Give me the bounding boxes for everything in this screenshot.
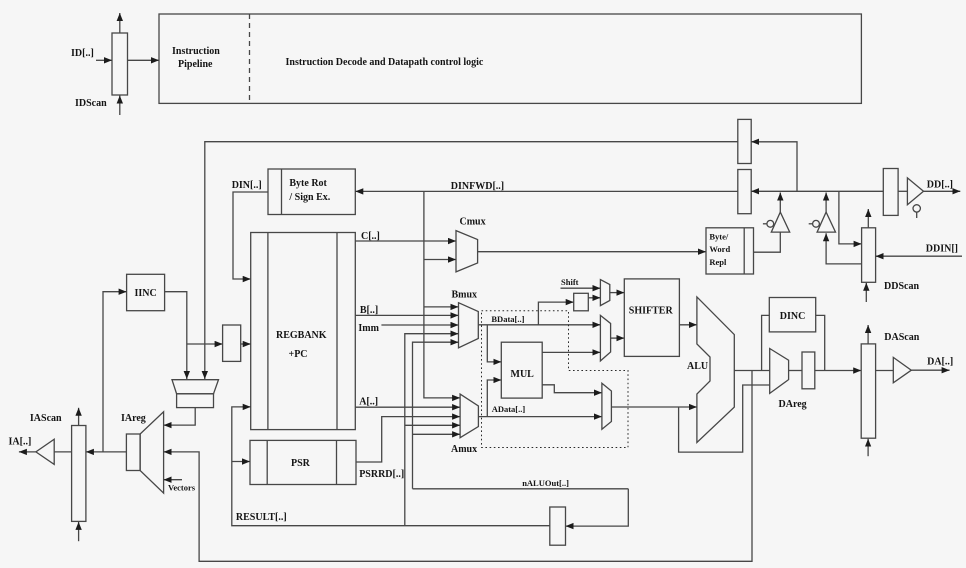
svg-text:DDScan: DDScan xyxy=(884,281,919,292)
svg-text:A[..]: A[..] xyxy=(359,397,378,408)
wire AData tap to MUL input 2 xyxy=(487,380,501,417)
svg-text:+PC: +PC xyxy=(289,349,308,360)
svg-text:Byte/: Byte/ xyxy=(709,232,729,242)
register DIN latch lower xyxy=(738,170,751,214)
svg-text:SHIFTER: SHIFTER xyxy=(629,306,674,317)
svg-text:Pipeline: Pipeline xyxy=(178,59,213,70)
wire riser branch to Bmux input 1 xyxy=(424,306,459,308)
register DIN forward latch upper xyxy=(738,119,751,163)
svg-text:Vectors: Vectors xyxy=(168,483,196,493)
wire Cmux output to Byte/Word Repl xyxy=(478,251,706,253)
wire tristate 2 output to bus xyxy=(825,193,827,213)
svg-text:Imm: Imm xyxy=(358,323,379,334)
svg-text:DINFWD[..]: DINFWD[..] xyxy=(451,181,504,192)
wire DD[..] output arrow xyxy=(924,190,961,192)
svg-text:nALUOut[..]: nALUOut[..] xyxy=(522,478,569,488)
svg-text:RESULT[..]: RESULT[..] xyxy=(236,512,287,523)
svg-text:BData[..]: BData[..] xyxy=(491,314,524,324)
mux Cmux xyxy=(456,231,478,272)
wire riser branch to Cmux input 2 xyxy=(424,259,456,261)
wire operand mux to ALU input 2 xyxy=(611,406,697,408)
register DD latch xyxy=(883,169,898,216)
wire DD bus tap into upper latch xyxy=(751,142,797,192)
wire nALUOut into data out register xyxy=(566,489,629,526)
transistor tristate driver 1 from Byte/Word Repl xyxy=(763,223,767,225)
wire latch to REGBANK xyxy=(241,343,251,345)
svg-text:DD[..]: DD[..] xyxy=(927,180,953,191)
mux shifter operand mux xyxy=(600,315,610,361)
svg-text:PSRRD[..]: PSRRD[..] xyxy=(359,469,404,480)
wire RESULT branch into PSR xyxy=(232,461,250,463)
svg-text:DINC: DINC xyxy=(780,311,806,322)
svg-text:Word: Word xyxy=(709,244,730,254)
wire DDScan to tristate 2 xyxy=(826,233,862,264)
wire DINC right bracket xyxy=(816,315,825,370)
wire RESULT bus xyxy=(232,407,550,526)
wire SHIFTER output to ALU input 1 xyxy=(679,324,697,326)
svg-text:Byte Rot: Byte Rot xyxy=(289,178,327,189)
wire RESULT branch to Amux input 4 xyxy=(405,424,460,426)
transistor tristate driver 2 from DDScan xyxy=(809,223,813,225)
svg-text:PSR: PSR xyxy=(291,458,311,469)
mux Bmux xyxy=(459,303,479,348)
mux ALU operand mux xyxy=(602,383,612,429)
svg-text:ALU: ALU xyxy=(687,361,708,372)
svg-text:IDScan: IDScan xyxy=(75,98,107,109)
wire DD latch to DD buffer xyxy=(898,190,907,192)
svg-text:IA[..]: IA[..] xyxy=(9,437,32,448)
wire B bus to Bmux xyxy=(355,314,458,316)
block MUL multiplier xyxy=(501,342,542,398)
svg-text:MUL: MUL xyxy=(511,369,535,380)
mux DAreg xyxy=(770,349,789,394)
wire MUL lower output to ALU operand mux xyxy=(542,385,602,393)
block IINC incrementer xyxy=(127,274,165,310)
wire Shift input to shift mux xyxy=(561,287,601,289)
svg-text:B[..]: B[..] xyxy=(360,305,378,316)
wire PC forward long wire to PC mux xyxy=(205,142,738,379)
svg-text:Cmux: Cmux xyxy=(460,217,486,228)
register shift amount box xyxy=(574,293,589,311)
wire AData bus Amux to ALU operand mux xyxy=(478,416,602,418)
wire nALUOut bus xyxy=(413,488,629,490)
wire tristate 1 output to bus xyxy=(779,193,781,213)
wire DA latch to DAScan xyxy=(815,370,861,372)
svg-text:Bmux: Bmux xyxy=(452,290,478,301)
block Byte/Word Repl xyxy=(706,228,754,274)
register PC update latch xyxy=(223,325,241,361)
block Byte Rot / Sign Ex. xyxy=(268,169,355,215)
wire DIN to REGBANK xyxy=(233,192,268,279)
wire shift box to shift mux xyxy=(588,297,600,299)
wire IAScan bottom arrow xyxy=(78,522,80,541)
wire BData bus Bmux to shifter operand mux xyxy=(478,324,600,326)
wire operand mux to SHIFTER xyxy=(611,337,625,339)
wire IDreg to pipeline box xyxy=(128,59,160,61)
svg-text:/ Sign Ex.: / Sign Ex. xyxy=(288,192,330,203)
register data out latch xyxy=(550,507,566,545)
wire IA[..] output arrow xyxy=(19,451,36,453)
svg-text:AData[..]: AData[..] xyxy=(492,404,526,414)
svg-text:DAScan: DAScan xyxy=(884,332,919,343)
wire C bus to Cmux xyxy=(355,240,456,242)
register DAScan cell xyxy=(861,344,875,438)
wire BData tap to MUL input 1 xyxy=(487,325,501,362)
wire dotted multiplier partition xyxy=(482,311,629,448)
op-amp ALU xyxy=(697,297,734,443)
register DDScan cell xyxy=(862,228,876,282)
wire dashed divider in decode box xyxy=(249,14,251,103)
block PSR xyxy=(250,440,356,484)
wire shift mux to SHIFTER xyxy=(610,292,625,294)
wire ID input xyxy=(96,59,112,61)
buffer DA output driver xyxy=(893,357,911,382)
wire DAScan bottom arrow xyxy=(867,439,869,457)
block REGBANK +PC xyxy=(251,233,356,430)
wire branch to PC update register xyxy=(187,343,223,345)
wire B bypass to DAreg input 2 xyxy=(679,385,770,452)
wire Vectors input xyxy=(164,479,182,481)
wire Byte/Word Repl to tristate 1 xyxy=(754,232,781,252)
mux PC address mux xyxy=(172,380,219,394)
wire DD enable bubble xyxy=(913,205,920,212)
mux Amux xyxy=(460,394,478,438)
svg-text:DAreg: DAreg xyxy=(779,399,807,410)
svg-text:IAreg: IAreg xyxy=(121,413,146,424)
register IAScan cell xyxy=(72,426,86,522)
wire IAScan top arrow xyxy=(78,408,80,426)
wire DINFWD bus into Byte Rot xyxy=(355,190,738,192)
svg-text:DA[..]: DA[..] xyxy=(927,357,953,368)
register DA latch xyxy=(802,352,815,389)
register IDreg scan cell xyxy=(112,33,128,95)
wire DINFWD riser to Amux input 1 xyxy=(424,191,460,398)
wire IINC output to PC mux xyxy=(165,292,187,379)
svg-text:Instruction Decode and Datapat: Instruction Decode and Datapath control … xyxy=(286,57,484,68)
wire DAScan to DA buffer xyxy=(876,370,894,372)
wire RESULT riser to Bmux input 4 xyxy=(405,334,459,526)
mux shift amount mux xyxy=(600,280,609,306)
wire MUL upper output to operand mux xyxy=(542,351,600,353)
wire A bus to Amux xyxy=(355,406,460,408)
wire ALU output bus to DAreg xyxy=(734,370,769,372)
wire IDreg top scan out arrow xyxy=(119,13,121,33)
svg-text:IAScan: IAScan xyxy=(30,413,62,424)
wire DA[..] output arrow xyxy=(911,369,949,371)
svg-text:IINC: IINC xyxy=(135,288,157,299)
svg-text:Shift: Shift xyxy=(561,277,579,287)
wire bus tap down into DDScan xyxy=(839,191,862,244)
wire nALUOut branch to Amux input 5 xyxy=(413,433,461,435)
wire IINC input from IA bus xyxy=(103,292,127,452)
wire BData tap to shift amount box xyxy=(538,302,573,325)
wire nALUOut riser to Bmux input 5 xyxy=(413,342,459,489)
wire DDScan top arrow xyxy=(867,209,869,228)
svg-text:REGBANK: REGBANK xyxy=(276,330,327,341)
block DINC incrementer xyxy=(769,298,815,332)
wire IDScan bottom arrow xyxy=(119,96,121,116)
block SHIFTER xyxy=(624,279,679,357)
wire DDScan bottom arrow xyxy=(865,283,867,302)
block Instruction Pipeline / Decode box xyxy=(159,14,861,103)
wire to IA output buffer xyxy=(54,451,71,453)
wire IAreg output to IAScan cell xyxy=(86,451,127,453)
register IAreg xyxy=(140,412,164,493)
buffer DD tristate output driver xyxy=(907,178,923,205)
svg-text:C[..]: C[..] xyxy=(361,231,380,242)
wire DD bus into lower latch xyxy=(751,190,883,192)
svg-text:Amux: Amux xyxy=(451,444,477,455)
svg-text:DIN[..]: DIN[..] xyxy=(232,180,262,191)
wire PSRRD to Amux input 3 xyxy=(356,417,460,462)
wire DDIN input xyxy=(876,255,962,257)
buffer IA output driver xyxy=(36,439,54,464)
wire Imm to Bmux xyxy=(381,324,458,326)
wire PC mux output to IAreg xyxy=(164,408,196,426)
wire DINC left bracket xyxy=(762,315,770,370)
svg-text:Instruction: Instruction xyxy=(172,46,220,57)
svg-text:ID[..]: ID[..] xyxy=(71,48,94,59)
wire DAreg to DA latch xyxy=(789,370,802,372)
svg-text:Repl: Repl xyxy=(709,257,727,267)
wire result loop down and around to IAreg xyxy=(164,371,752,562)
svg-text:DDIN[]: DDIN[] xyxy=(926,244,958,255)
wire DAScan top arrow xyxy=(867,325,869,344)
